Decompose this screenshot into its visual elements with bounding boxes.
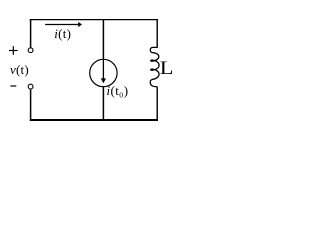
svg-text:i(t): i(t) [54,26,71,41]
current source I1: internal arrow pointing down [101,60,106,84]
svg-text:i(t0): i(t0) [107,83,129,99]
label: minus sign of port voltage [10,85,16,87]
wire: left branch upper (corner to top terminal) [30,19,32,48]
wire: middle branch upper [102,19,104,60]
arrow: current direction i(t) [45,22,82,27]
wire: left branch lower (bottom terminal to corner) [30,89,32,121]
wire: right branch upper [156,19,158,48]
wire: middle branch lower [102,87,104,121]
svg-text:L: L [160,58,174,79]
wire: bottom horizontal [30,119,158,121]
wire: top horizontal [30,19,158,21]
svg-text:v(t): v(t) [10,62,29,77]
wire: right branch lower [156,87,158,121]
label: plus sign of port voltage [9,46,18,55]
current source I1: circle [90,59,117,86]
node a: top terminal circle [28,48,33,53]
node b: bottom terminal circle [28,84,33,89]
inductor L: coil with three loops [150,47,159,86]
